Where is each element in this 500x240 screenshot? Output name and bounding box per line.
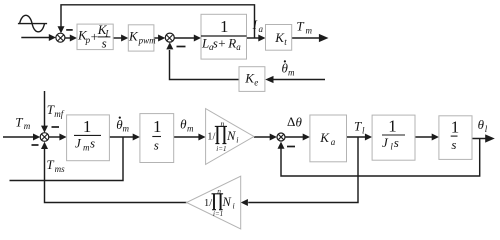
svg-text:s: s xyxy=(451,137,456,152)
svg-text:θ: θ xyxy=(478,117,485,132)
svg-text:s: s xyxy=(154,138,159,153)
svg-text:i: i xyxy=(233,202,235,211)
svg-text:1: 1 xyxy=(220,17,229,36)
svg-text:θ: θ xyxy=(296,114,303,129)
svg-text:1: 1 xyxy=(451,118,460,137)
svg-text:i: i xyxy=(236,136,238,145)
svg-text:L: L xyxy=(201,36,209,51)
svg-text:i=1: i=1 xyxy=(213,210,223,218)
svg-text:1/: 1/ xyxy=(207,131,215,142)
svg-text:K: K xyxy=(128,28,139,43)
svg-text:1/: 1/ xyxy=(204,198,212,209)
svg-text:e: e xyxy=(254,77,258,87)
svg-text:+: + xyxy=(218,36,225,51)
svg-text:a: a xyxy=(331,137,336,147)
svg-text:N: N xyxy=(226,129,236,143)
svg-text:1: 1 xyxy=(388,117,397,136)
svg-text:m: m xyxy=(83,142,90,152)
svg-text:1: 1 xyxy=(83,117,92,136)
svg-text:m: m xyxy=(288,67,295,77)
svg-text:Δ: Δ xyxy=(287,114,295,129)
svg-text:T: T xyxy=(354,119,362,134)
svg-text:a: a xyxy=(236,42,241,52)
svg-text:T: T xyxy=(15,115,23,130)
svg-text:s: s xyxy=(102,36,107,51)
svg-text:pwm: pwm xyxy=(138,35,157,45)
svg-text:I: I xyxy=(252,17,258,32)
svg-text:m: m xyxy=(123,124,130,134)
svg-text:mf: mf xyxy=(54,109,64,119)
svg-text:T: T xyxy=(46,157,54,172)
svg-text:R: R xyxy=(227,36,236,51)
svg-text:m: m xyxy=(24,121,31,131)
svg-text:K: K xyxy=(319,130,330,145)
svg-text:m: m xyxy=(306,25,313,35)
svg-text:s: s xyxy=(213,36,218,51)
svg-text:1: 1 xyxy=(153,117,162,136)
svg-text:T: T xyxy=(296,19,304,34)
svg-text:i=1: i=1 xyxy=(216,145,226,153)
svg-text:s: s xyxy=(394,135,399,150)
svg-text:s: s xyxy=(90,136,95,151)
svg-text:m: m xyxy=(187,123,194,133)
svg-text:N: N xyxy=(222,195,232,209)
svg-text:ms: ms xyxy=(55,164,65,174)
svg-text:a: a xyxy=(259,24,264,34)
